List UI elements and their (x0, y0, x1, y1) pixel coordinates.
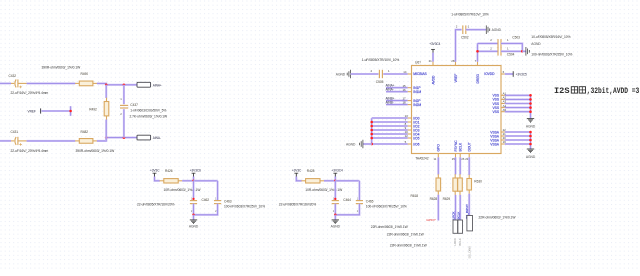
svg-text:U6?: U6? (415, 61, 421, 65)
svg-text:22-uF/0805/X7R/16V/20%: 22-uF/0805/X7R/16V/20% (279, 203, 317, 207)
resistor R482 (75, 130, 115, 153)
ground AGND (C502) (486, 25, 501, 34)
port AINA+ (137, 82, 162, 87)
junction VSS bus A4 (529, 106, 532, 109)
wire: junction to second cap branch (194, 180, 218, 182)
svg-text:LRCK: LRCK (453, 238, 457, 246)
svg-text:AGND: AGND (336, 72, 346, 76)
svg-text:,32bit,AVDD =3: ,32bit,AVDD =3 (587, 86, 640, 96)
wire: VSS pin A5 (501, 108, 531, 112)
wire: VSS tie bus (529, 95, 531, 118)
op-amp U6? TAA5242 codec IC body (412, 61, 502, 161)
annotation: I2S mode note (554, 86, 639, 96)
junction on bottom rail at R492 (105, 136, 108, 139)
resistor R628 (430, 174, 458, 201)
svg-text:AGND: AGND (526, 125, 536, 129)
svg-text:R482: R482 (81, 130, 89, 134)
junction VSS bus A5 (529, 110, 532, 113)
svg-text:C505: C505 (376, 80, 384, 84)
port I2S DATA (vertical box) (467, 216, 473, 231)
svg-text:BCLK: BCLK (458, 238, 462, 245)
port I2S BCLK (vertical box) (458, 220, 463, 233)
svg-text:22R-ohm/0603/_1%/0.1W: 22R-ohm/0603/_1%/0.1W (387, 233, 425, 237)
svg-text:AGND: AGND (492, 28, 502, 32)
capacitor C432 (polarized) (9, 74, 49, 95)
svg-text:22R-ohm/0603/_1%/0.1W: 22R-ohm/0603/_1%/0.1W (371, 225, 409, 229)
svg-text:DREG: DREG (476, 74, 480, 84)
ground AGND (DREG caps) (526, 42, 541, 55)
svg-text:MICBIAS: MICBIAS (413, 72, 427, 76)
junction VSSA bus 22 (529, 131, 532, 134)
wire: C502 to AGND (466, 29, 487, 31)
wire: VSS pin A2 (501, 96, 531, 100)
svg-text:AGND: AGND (531, 42, 541, 46)
svg-text:+3V3C5: +3V3C5 (516, 72, 527, 76)
wire: pin I/O5 to tie bus (372, 134, 412, 138)
node AINB+ net label stub (386, 97, 412, 101)
capacitor C464 (332, 181, 351, 213)
wire: FSYNC pin down (452, 154, 456, 175)
wire: C432 to R490 (27, 82, 76, 84)
svg-text:R629: R629 (443, 197, 451, 201)
node AINB- net label stub (386, 101, 412, 105)
svg-text:I2S: I2S (554, 87, 570, 96)
svg-text:C504: C504 (507, 53, 515, 57)
svg-text:22R-ohm/0603/_1%/0.1W: 22R-ohm/0603/_1%/0.1W (390, 244, 428, 248)
wire: VSSA pin 21 (501, 132, 531, 136)
junction on bottom rail at C437 (123, 136, 126, 139)
svg-text:100-nF/0603/X7R/25V/_10%: 100-nF/0603/X7R/25V/_10% (531, 52, 572, 56)
junction at output power net (192, 180, 195, 183)
wire: AGND to C505 (351, 73, 379, 75)
svg-text:C437: C437 (130, 103, 138, 107)
wire: top input rail left segment (0, 82, 11, 84)
node AINA- net label stub (386, 88, 412, 92)
junction tie bus I/O4 (370, 133, 373, 136)
svg-text:+3V3C6: +3V3C6 (190, 169, 201, 173)
wire: VREF stub (42, 110, 71, 112)
svg-text:10R-ohm/0603/_1%/0.1W: 10R-ohm/0603/_1%/0.1W (305, 188, 343, 192)
wire: VSSA pin 19 (501, 140, 531, 144)
wire: VSSA pin 22 (501, 128, 531, 132)
svg-text:AINA-: AINA- (386, 88, 394, 92)
svg-text:28: 28 (451, 59, 455, 63)
wire: BCLK pin down (460, 154, 465, 175)
svg-text:19: 19 (503, 140, 507, 144)
wire: VSS pin A4 (501, 104, 531, 108)
svg-text:18: 18 (403, 101, 407, 105)
svg-text:1-uF/0805/X7R/10V/_10%: 1-uF/0805/X7R/10V/_10% (451, 12, 489, 16)
svg-text:A5: A5 (503, 108, 507, 112)
wire: pin I/O4 to tie bus (372, 130, 412, 134)
svg-text:AINB-: AINB- (386, 101, 394, 105)
svg-text:1-nF/0603/C0G/50V/_5%: 1-nF/0603/C0G/50V/_5% (130, 109, 166, 113)
wire: R628 to port (454, 195, 456, 220)
wire: VSS pin A3 (501, 100, 531, 104)
junction tie bus I/O6 (370, 143, 373, 146)
svg-text:I/O6: I/O6 (413, 142, 419, 146)
svg-text:AINA-: AINA- (153, 136, 161, 140)
svg-text:21: 21 (429, 59, 433, 63)
junction VSSA bus 20 (529, 139, 532, 142)
resistor R618 (411, 174, 441, 198)
junction VSS bus A3 (529, 102, 532, 105)
svg-text:AGND: AGND (526, 155, 536, 159)
power port +3V3C6 (190, 169, 201, 177)
junction tie bus I/O2 (370, 125, 373, 128)
svg-text:C465: C465 (366, 200, 374, 204)
junction DREG decoupling left (476, 50, 479, 53)
wire: caps bottom tie (194, 204, 218, 215)
capacitor C503 (478, 35, 521, 47)
svg-text:GPO: GPO (437, 144, 441, 152)
wire: top rail to R492 (105, 85, 107, 98)
svg-text:14: 14 (403, 70, 407, 74)
svg-text:12: 12 (405, 134, 409, 138)
svg-text:AVDD: AVDD (431, 75, 435, 84)
svg-text:R630: R630 (474, 180, 482, 184)
svg-text:C463: C463 (224, 200, 232, 204)
svg-text:10R-ohm/0603/_1%/0.1W: 10R-ohm/0603/_1%/0.1W (164, 188, 202, 192)
svg-text:+3V3C4: +3V3C4 (332, 169, 343, 173)
capacitor C502 (451, 12, 489, 65)
svg-text:16: 16 (403, 88, 407, 92)
svg-text:IOVDD: IOVDD (484, 72, 495, 76)
power port +3V3C4 (332, 169, 343, 177)
svg-text:I/O5: I/O5 (413, 136, 419, 140)
wire: C437 to bottom rail (123, 109, 125, 137)
wire: pin I/O6 to tie bus (372, 140, 412, 144)
junction at ground tie (192, 214, 195, 217)
resistor R629 (443, 174, 463, 201)
junction VSSA bus 19 (529, 143, 532, 146)
svg-text:390R-ohm/0603/_1%/0.1W: 390R-ohm/0603/_1%/0.1W (76, 149, 116, 153)
svg-text:VSS: VSS (492, 110, 499, 114)
wire: power elbow to resistor (155, 177, 160, 181)
power port +3V3C4 (AVDD) (429, 42, 440, 53)
ground AGND (VSSA) (526, 149, 536, 159)
resistor R490 (42, 65, 98, 85)
wire: VSSA pin 20 (501, 136, 531, 140)
svg-text:C432: C432 (9, 74, 17, 78)
junction tie bus I/O5 (370, 137, 373, 140)
junction VSS bus A2 (529, 98, 532, 101)
svg-text:TAA5242: TAA5242 (415, 156, 429, 160)
wire: C431 to R482 (27, 140, 76, 142)
wire: GPO pin down (434, 154, 439, 175)
svg-text:2.7K-ohm/0603/_1%/0.1W: 2.7K-ohm/0603/_1%/0.1W (130, 114, 169, 118)
port I2S LRCK (vertical box) (453, 220, 458, 233)
svg-text:VREF: VREF (28, 110, 36, 114)
svg-text:+3V3C: +3V3C (292, 169, 302, 173)
junction on top rail at C437 (123, 84, 126, 87)
svg-text:R428: R428 (307, 169, 315, 173)
svg-text:BCLK: BCLK (456, 212, 460, 220)
junction at ground tie (334, 214, 337, 217)
wire: AVDD riser (429, 53, 433, 66)
wire: pin I/O1 to tie bus (372, 118, 412, 122)
svg-text:FSYNC: FSYNC (454, 140, 458, 152)
wire: VREF end tick (70, 106, 72, 116)
node AINA+ net label stub (386, 84, 412, 88)
wire: R482 to port AINA- (jog) (97, 138, 137, 141)
wire: pin I/O3 to tie bus (372, 126, 412, 130)
svg-text:R618: R618 (411, 194, 419, 198)
capacitor C431 (polarized) (11, 130, 49, 153)
wire: resistor to output net junction (182, 180, 193, 182)
wire: bottom input rail left segment (0, 140, 11, 142)
wire: pin I/O0 to tie bus (372, 114, 412, 118)
svg-text:LRCK: LRCK (452, 211, 456, 219)
wire: C505 to MICBIAS pin 14 (383, 70, 411, 74)
svg-text:C431: C431 (11, 130, 19, 134)
wire: VSS pin A1 (501, 92, 531, 96)
svg-text:I2S_DIN0: I2S_DIN0 (468, 246, 472, 259)
svg-text:AGND: AGND (189, 224, 199, 228)
wire: pin I/O2 to tie bus (372, 122, 412, 126)
svg-text:10-uF/0805/X5R/16V/_10%: 10-uF/0805/X5R/16V/_10% (531, 35, 570, 39)
junction at cap top (334, 198, 336, 200)
capacitor C505 (362, 58, 400, 84)
svg-text:AINA+: AINA+ (153, 83, 162, 87)
wire: junction to second cap branch (335, 180, 359, 182)
wire: resistor to output net junction (324, 180, 335, 182)
wire: R629 to port (459, 195, 461, 220)
wire: IOVDD pin 6 to +3V3C5 (501, 70, 513, 74)
wire: R490 to port AINA+ (jog) (97, 83, 137, 84)
junction tie bus I/O1 (370, 121, 373, 124)
capacitor C465 (356, 181, 374, 213)
power port +3V3C (150, 169, 160, 177)
svg-text:390R-ohm/0603/_1%/0.1W: 390R-ohm/0603/_1%/0.1W (42, 65, 82, 69)
capacitor C463 (214, 181, 232, 213)
capacitor C437 (120, 97, 166, 116)
junction caps right tie (521, 50, 524, 53)
resistor R426 (160, 169, 202, 192)
svg-text:IN2M: IN2M (413, 103, 421, 107)
svg-text:+3V3C4: +3V3C4 (429, 42, 440, 46)
wire: R618 to GPIO? label (437, 195, 439, 221)
svg-text:1-uF/0805/X7R/10V/_10%: 1-uF/0805/X7R/10V/_10% (362, 58, 400, 62)
svg-text:C462: C462 (202, 198, 210, 202)
svg-text:C502: C502 (461, 36, 469, 40)
resistor R492 (89, 98, 168, 120)
svg-text:R490: R490 (81, 72, 89, 76)
svg-text:AGND: AGND (346, 143, 356, 147)
ground AGND (I/O tie) (346, 140, 372, 149)
junction VSSA bus 21 (529, 135, 532, 138)
svg-text:22-uF/0805/X7R/16V/20%: 22-uF/0805/X7R/16V/20% (137, 203, 175, 207)
wire: I/O tie bus vertical (371, 118, 373, 144)
wire: power stem to junction (192, 177, 194, 181)
junction at output power net (334, 180, 337, 183)
node: VREF dangling end (69, 110, 72, 113)
capacitor C504 (478, 46, 515, 56)
wire: power stem to junction (334, 177, 336, 181)
svg-text:R492: R492 (89, 108, 97, 112)
svg-text:11: 11 (434, 157, 437, 161)
ground AGND (left of C505) (336, 70, 351, 79)
svg-text:IN1M: IN1M (413, 90, 421, 94)
wire: caps bottom tie (335, 204, 359, 215)
svg-text:GPIO?: GPIO? (426, 218, 436, 222)
svg-text:VSSA: VSSA (490, 142, 500, 146)
resistor R630 (467, 175, 482, 194)
port AINA- (137, 135, 161, 140)
junction VSS bus A1 (529, 94, 532, 97)
wire: R492 to bottom rail (105, 120, 107, 141)
svg-text:R426: R426 (165, 169, 173, 173)
wire: DOUT pin down (465, 154, 469, 176)
power port +3V3C5 (513, 71, 527, 77)
wire: DREG riser (475, 43, 478, 65)
capacitor C462 (190, 181, 209, 213)
wire: power elbow to resistor (296, 177, 301, 181)
svg-text:AGND: AGND (331, 224, 341, 228)
junction at cap top (192, 198, 194, 200)
svg-text:22R-ohm/0603/_1%/0.1W: 22R-ohm/0603/_1%/0.1W (479, 216, 517, 220)
ground AGND (189, 215, 199, 229)
svg-text:C503: C503 (512, 35, 520, 39)
wire: caps right tie to AGND (501, 43, 522, 51)
svg-text:+3V3C: +3V3C (150, 169, 160, 173)
svg-text:C464: C464 (343, 198, 351, 202)
svg-text:R628: R628 (430, 197, 438, 201)
svg-text:VREF: VREF (454, 74, 458, 83)
resistor R428 (301, 169, 343, 192)
port VREF (28, 108, 41, 113)
svg-text:100-nF/0603/X7R/25V/_10%: 100-nF/0603/X7R/25V/_10% (224, 205, 265, 209)
svg-text:22-uF/16V/_20%/4*5.4mm: 22-uF/16V/_20%/4*5.4mm (11, 91, 49, 95)
svg-text:BCLK: BCLK (459, 142, 463, 151)
junction on top rail at R492 (105, 84, 108, 87)
wire: tie to AGND symbol (522, 50, 526, 52)
svg-text:DOUT: DOUT (468, 142, 472, 151)
svg-text:100-nF/0603/X7R/25V/_10%: 100-nF/0603/X7R/25V/_10% (366, 205, 407, 209)
power port +3V3C (292, 169, 302, 177)
ground AGND (VSS) (526, 119, 536, 129)
ground AGND (331, 215, 341, 229)
wire: R630 to port (468, 194, 470, 216)
wire: VSSA tie bus (529, 132, 531, 149)
junction tie bus I/O3 (370, 129, 373, 132)
wire: top rail to C437 (123, 85, 125, 104)
svg-text:22-uF/16V/_20%/4*5.4mm: 22-uF/16V/_20%/4*5.4mm (11, 149, 49, 153)
